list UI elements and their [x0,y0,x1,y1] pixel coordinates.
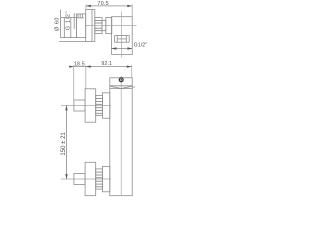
G1/2 outlet left arrow [112,47,117,49]
svg-text:18.5: 18.5 [74,61,85,67]
svg-text:Ø 60: Ø 60 [55,17,61,31]
svg-text:92.1: 92.1 [101,61,112,67]
dimension 70.5 right extension [131,5,133,17]
dimension 70.5 line [86,5,132,7]
seam tick right [132,86,135,88]
dim 18.5 / 92.1 line [69,66,132,68]
top view horizontal axis centerline [86,25,137,27]
escutcheon inner line [91,10,93,42]
lever paddle (top view) [61,18,77,38]
svg-text:150 ± 21: 150 ± 21 [61,132,67,156]
escutcheon Ø60 (top view) [86,10,95,42]
upper union flange [102,93,109,118]
bar vertical centerline [120,76,122,195]
dimension 70.5 left arrow [86,5,91,7]
G1/2 outlet right arrow [127,47,132,49]
O60 extension tick [59,40,86,42]
dim 92.1 left arrow (pointing left) [86,65,91,67]
lower union knurled nut [96,169,103,189]
upper union nut [74,100,85,111]
lever step edge [73,13,75,29]
lever base step line [76,17,84,19]
svg-text:70.5: 70.5 [98,1,109,7]
dim 150 bottom arrow [65,174,67,179]
spacer ring (top view) [102,21,106,31]
lever inner step line [70,18,72,38]
wall block (top view) [112,17,133,55]
upper union escutcheon [85,89,96,122]
upper knurl ridges [96,98,103,100]
O60 dim line stub [60,10,62,18]
screw center dot [121,79,122,80]
upper union centerline [61,105,111,107]
block vertical centerline [120,12,122,58]
seam diagonal left [110,86,121,88]
outlet inner vertical right [125,36,127,43]
bracket seam line 1 [110,85,132,87]
lower union nut [74,174,85,185]
lever paddle inner edge [63,18,65,38]
outlet rect in block [115,36,130,43]
upper union knurled nut [96,95,103,115]
lever base cap (top view) [76,14,85,38]
dim 150 vertical line [66,106,68,180]
lower union flange [102,166,109,191]
body bar (front view) [110,78,132,196]
dim 150 top arrow [65,106,67,111]
lower union escutcheon [85,162,96,195]
G1/2 outlet dim line [112,48,133,50]
knurled nut (top view) [95,18,102,34]
dim 92.1 right arrow (pointing right) [127,65,132,67]
bracket seam line 2 [110,88,132,90]
screw head circle [119,78,123,82]
dim 18.5 left arrow (outside, pointing right) [69,66,73,68]
knurl ridge lines [95,20,102,22]
dim 18.5/92.1 middle extension [85,65,87,89]
svg-text:G 1/2": G 1/2" [66,11,72,30]
base grip ticks [77,14,79,18]
outlet inner vertical left [116,36,118,43]
seam diagonal right [122,86,132,88]
flange ring (top view) [106,18,112,34]
dim 18.5 left extension [73,65,75,99]
outlet inner horizontal [117,38,126,40]
lower union centerline [61,178,111,180]
dim 92.1 right extension [131,65,133,77]
lower knurl ridges [96,171,103,173]
dimension 70.5 right arrow [127,5,132,7]
dimension 70.5 left extension [85,5,87,10]
svg-text:G1/2": G1/2" [134,43,148,49]
